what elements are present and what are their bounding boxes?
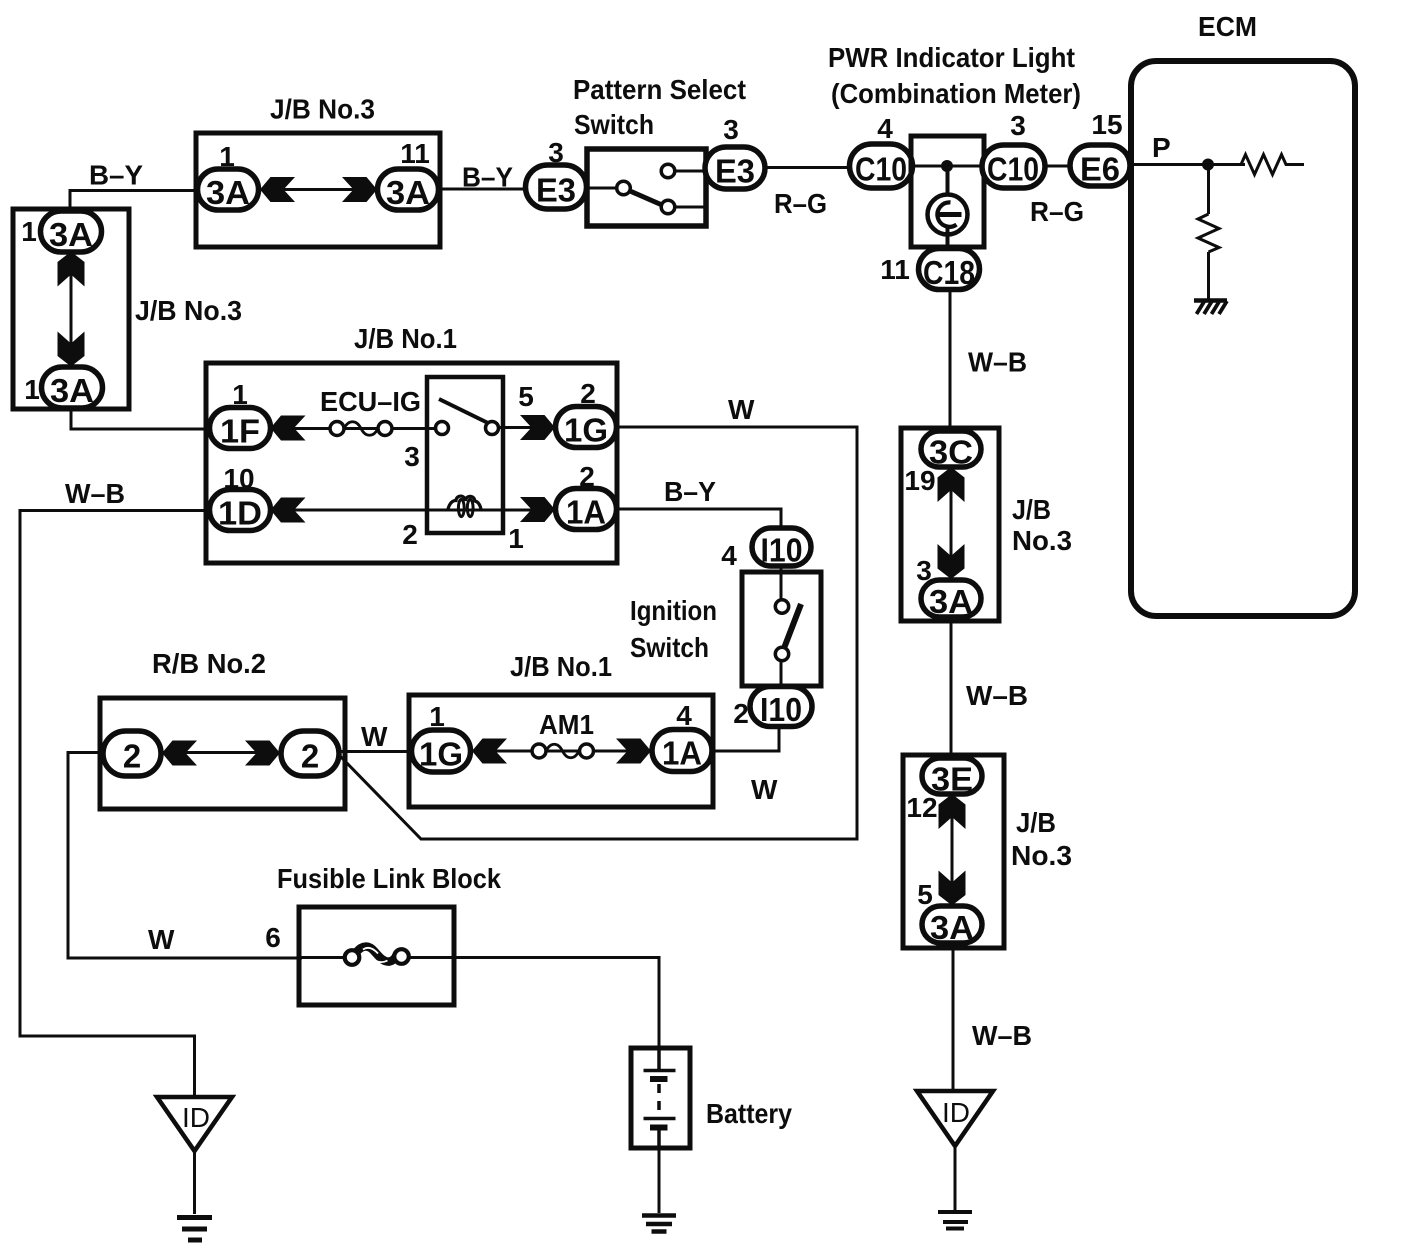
svg-text:3A: 3A <box>206 174 250 211</box>
arrow right (R/B) <box>245 741 280 766</box>
fuse AM1 <box>532 744 594 758</box>
svg-text:11: 11 <box>880 254 910 285</box>
svg-text:1G: 1G <box>564 412 608 449</box>
wire 1D row <box>270 509 556 512</box>
connector E3 right <box>705 147 765 190</box>
wire W-B between J/B boxes <box>950 621 953 755</box>
R/B No.2 box <box>100 698 345 809</box>
svg-text:Switch: Switch <box>574 109 654 140</box>
ID triangle left <box>157 1097 232 1151</box>
wire 1F row <box>270 427 440 430</box>
svg-text:E3: E3 <box>715 153 755 190</box>
relay arm <box>439 399 488 423</box>
svg-text:J/B: J/B <box>1016 807 1056 838</box>
svg-text:W–B: W–B <box>966 680 1028 711</box>
switch contact bottom right <box>661 200 675 214</box>
svg-text:W: W <box>728 394 755 425</box>
arrow right at 1G <box>520 415 555 440</box>
svg-text:ECM: ECM <box>1198 11 1257 42</box>
wire B-Y top-left <box>70 191 198 216</box>
svg-text:3A: 3A <box>930 909 974 946</box>
svg-text:B–Y: B–Y <box>462 162 513 193</box>
svg-text:ID: ID <box>942 1097 970 1128</box>
svg-text:P: P <box>1152 132 1171 163</box>
svg-text:3A: 3A <box>49 216 93 253</box>
svg-text:R–G: R–G <box>1030 196 1084 227</box>
connector 1A <box>556 489 617 531</box>
svg-text:5: 5 <box>917 879 933 910</box>
connector 3A pin 1 (left box bottom) <box>42 367 103 409</box>
svg-text:1D: 1D <box>218 495 262 532</box>
arrow right at 1A bottom <box>616 739 651 764</box>
svg-text:B–Y: B–Y <box>664 476 716 507</box>
svg-text:3A: 3A <box>929 583 973 620</box>
svg-text:3: 3 <box>723 114 739 145</box>
svg-text:3C: 3C <box>929 434 973 471</box>
arrow right at 1A <box>520 497 555 522</box>
ground battery <box>642 1216 676 1232</box>
arrow down (left box) <box>58 332 85 367</box>
ECM box <box>1131 61 1355 616</box>
relay contact right <box>486 422 499 435</box>
arrow left at 1F <box>271 416 306 441</box>
J/B No.3 box (3E/3A) <box>903 755 1004 948</box>
svg-text:PWR Indicator Light: PWR Indicator Light <box>828 42 1075 73</box>
wire into fusible block <box>300 956 348 959</box>
wire relay to 1G <box>498 426 556 429</box>
svg-text:1: 1 <box>21 216 37 247</box>
connector 3A (below 3E) <box>922 906 982 946</box>
PWR indicator lamp <box>928 195 968 235</box>
connector 3A pin 1 (top box left) <box>198 169 259 211</box>
resistor vertical ECM <box>1198 214 1219 252</box>
svg-text:W: W <box>751 774 778 805</box>
svg-text:I10: I10 <box>761 532 803 569</box>
connector C10 left <box>850 144 913 188</box>
ignition contact bottom <box>775 647 788 660</box>
svg-text:4: 4 <box>721 540 737 571</box>
arrow right (top J/B No.3) <box>342 177 377 202</box>
wire inside R/B <box>140 751 300 754</box>
wire AM1 row <box>471 750 655 753</box>
svg-text:W–B: W–B <box>968 347 1027 378</box>
arrow up (left box) <box>58 252 85 287</box>
connector 1G <box>556 407 617 449</box>
wire W between R/B and J/B <box>339 750 416 753</box>
arrow left (top J/B No.3) <box>260 177 295 202</box>
svg-text:No.3: No.3 <box>1011 840 1072 871</box>
svg-text:W–B: W–B <box>65 478 125 509</box>
svg-text:R/B No.2: R/B No.2 <box>152 648 266 679</box>
svg-text:I10: I10 <box>760 691 802 728</box>
wire E3 to contact <box>588 187 617 190</box>
connector C18 <box>919 249 980 292</box>
ground left <box>177 1218 212 1241</box>
arrow left at 1G bottom <box>472 739 507 764</box>
wire E3 right to C10 <box>764 166 851 169</box>
double arrow shaft (3E box) <box>951 795 954 905</box>
connector 3A pin 11 (top box right) <box>378 169 439 211</box>
svg-text:3: 3 <box>1010 110 1026 141</box>
connector 1A (bottom J/B) <box>652 730 712 772</box>
svg-text:ID: ID <box>182 1102 210 1133</box>
svg-text:W: W <box>361 721 388 752</box>
J/B No.1 box (top) <box>206 363 617 563</box>
svg-text:No.3: No.3 <box>1012 525 1072 556</box>
wire battery to ground <box>658 1148 661 1213</box>
svg-text:J/B: J/B <box>1012 494 1051 525</box>
svg-text:1F: 1F <box>220 413 260 450</box>
wire through meter box <box>911 165 985 168</box>
svg-text:1: 1 <box>24 374 40 405</box>
svg-text:Battery: Battery <box>706 1098 792 1129</box>
junction node <box>941 160 953 172</box>
fuse ECU-IG <box>330 422 392 436</box>
svg-text:(Combination Meter): (Combination Meter) <box>831 78 1081 109</box>
svg-text:5: 5 <box>518 381 534 412</box>
connector 1G (bottom J/B) <box>412 730 471 773</box>
wire contact bottom to edge <box>675 206 704 209</box>
svg-text:B–Y: B–Y <box>89 160 143 191</box>
relay box <box>427 377 503 533</box>
wire W-B from 1D long <box>20 511 210 1099</box>
wire junction to lamp <box>946 166 950 205</box>
svg-text:4: 4 <box>877 113 893 144</box>
wire resistor to ground <box>1207 252 1210 300</box>
connector 2 right (R/B) <box>281 731 339 776</box>
wire junction down <box>1207 165 1210 215</box>
ground right <box>938 1212 972 1229</box>
junction node ECM <box>1202 159 1214 171</box>
fusible link block box <box>299 907 454 1005</box>
svg-text:W–B: W–B <box>972 1020 1032 1051</box>
ignition switch box <box>742 572 821 686</box>
wire lamp to C18 <box>946 225 950 252</box>
svg-text:ECU–IG: ECU–IG <box>320 386 421 417</box>
wire contact top to edge <box>675 170 705 173</box>
connector C10 right <box>982 145 1045 188</box>
connector 3A pin 1 (left box top) <box>41 211 102 253</box>
connector I10 top <box>752 528 811 569</box>
svg-text:E6: E6 <box>1080 151 1120 188</box>
svg-text:W: W <box>148 924 175 955</box>
connector 1D <box>210 490 271 532</box>
connector I10 bottom <box>750 687 812 729</box>
svg-text:C18: C18 <box>923 254 975 291</box>
switch contact top right <box>661 164 675 178</box>
svg-text:1A: 1A <box>662 735 702 772</box>
wire I10 bottom to 1A <box>712 727 779 751</box>
svg-text:J/B No.3: J/B No.3 <box>270 94 375 125</box>
svg-text:Switch: Switch <box>630 632 709 663</box>
arrow down (3C box) <box>938 544 965 579</box>
svg-text:1: 1 <box>508 523 524 554</box>
wire inside top J/B No.3 <box>250 188 390 191</box>
svg-text:1G: 1G <box>419 736 463 773</box>
svg-text:C10: C10 <box>855 151 907 188</box>
wire B-Y from 1A <box>616 509 781 530</box>
connector 1F <box>210 408 271 450</box>
arrow left at 1D <box>271 498 306 523</box>
switch contact left <box>617 181 631 195</box>
svg-text:15: 15 <box>1091 109 1122 140</box>
relay contact left <box>436 422 449 435</box>
svg-text:J/B No.1: J/B No.1 <box>510 651 612 682</box>
wire left box to 1F <box>71 408 210 429</box>
svg-text:J/B No.3: J/B No.3 <box>135 295 242 326</box>
Pattern Select Switch box <box>587 149 706 226</box>
ignition contact top <box>775 600 788 613</box>
svg-text:11: 11 <box>400 138 430 169</box>
svg-text:1: 1 <box>219 141 235 172</box>
connector 3E <box>922 758 982 798</box>
wire ID to ground right <box>954 1146 957 1212</box>
double arrow shaft (3C box) <box>950 468 953 579</box>
svg-text:2: 2 <box>733 698 749 729</box>
svg-text:Pattern Select: Pattern Select <box>573 74 746 105</box>
combination meter box <box>911 136 984 247</box>
J/B No.3 box (top) <box>196 133 440 247</box>
ID triangle right <box>917 1091 993 1146</box>
svg-text:6: 6 <box>265 922 281 953</box>
wire contact to I10 bottom <box>780 660 783 690</box>
fusible link element <box>345 947 409 965</box>
svg-text:3: 3 <box>404 441 420 472</box>
battery box <box>631 1048 690 1148</box>
svg-text:12: 12 <box>906 792 937 823</box>
arrow down (3E box) <box>939 871 966 906</box>
wire E6 into ECM <box>1129 163 1245 166</box>
wire C10 to E6 <box>1044 165 1071 168</box>
resistor horizontal ECM <box>1241 155 1304 175</box>
svg-text:E3: E3 <box>536 172 576 209</box>
svg-text:3A: 3A <box>50 372 94 409</box>
connector E6 <box>1070 145 1130 188</box>
arrow up (3C box) <box>938 467 965 502</box>
wire B-Y (top box to E3) <box>438 188 527 191</box>
svg-text:4: 4 <box>676 700 692 731</box>
connector 2 left (R/B) <box>103 731 161 776</box>
relay coil <box>448 496 481 517</box>
J/B No.1 box (bottom) <box>409 695 713 807</box>
svg-text:2: 2 <box>123 738 141 775</box>
wire W from 1G long <box>339 427 857 839</box>
switch lever <box>630 191 662 205</box>
svg-text:2: 2 <box>301 738 319 775</box>
J/B No.3 box (3C/3A) <box>901 428 999 621</box>
connector 3A (below 3C) <box>921 580 981 620</box>
svg-text:1A: 1A <box>566 494 606 531</box>
svg-text:AM1: AM1 <box>539 709 594 740</box>
arrow up (3E box) <box>939 794 966 829</box>
wire W-B down to ID <box>952 948 955 1091</box>
svg-text:19: 19 <box>904 465 935 496</box>
svg-text:Ignition: Ignition <box>630 595 717 626</box>
svg-text:R–G: R–G <box>774 188 827 219</box>
wire from 2 left down to fusible link <box>68 753 302 959</box>
arrow left (R/B) <box>162 741 197 766</box>
svg-text:C10: C10 <box>987 151 1039 188</box>
double arrow shaft (left box) <box>70 250 73 368</box>
svg-text:3A: 3A <box>386 174 430 211</box>
J/B No.3 box (left vertical) <box>13 209 129 409</box>
connector 3C <box>921 431 981 471</box>
battery cell symbol <box>644 1050 676 1148</box>
svg-text:2: 2 <box>402 519 418 550</box>
svg-text:Fusible Link Block: Fusible Link Block <box>277 863 501 894</box>
wire I10 to contact <box>780 566 783 601</box>
connector E3 left <box>526 165 587 209</box>
svg-text:J/B No.1: J/B No.1 <box>354 323 457 354</box>
wire ID left to ground <box>193 1151 196 1214</box>
ECM internal ground <box>1194 301 1227 315</box>
ignition lever <box>781 604 801 656</box>
wire C18 down W-B <box>949 290 952 430</box>
wire fusible to battery <box>409 958 659 1051</box>
